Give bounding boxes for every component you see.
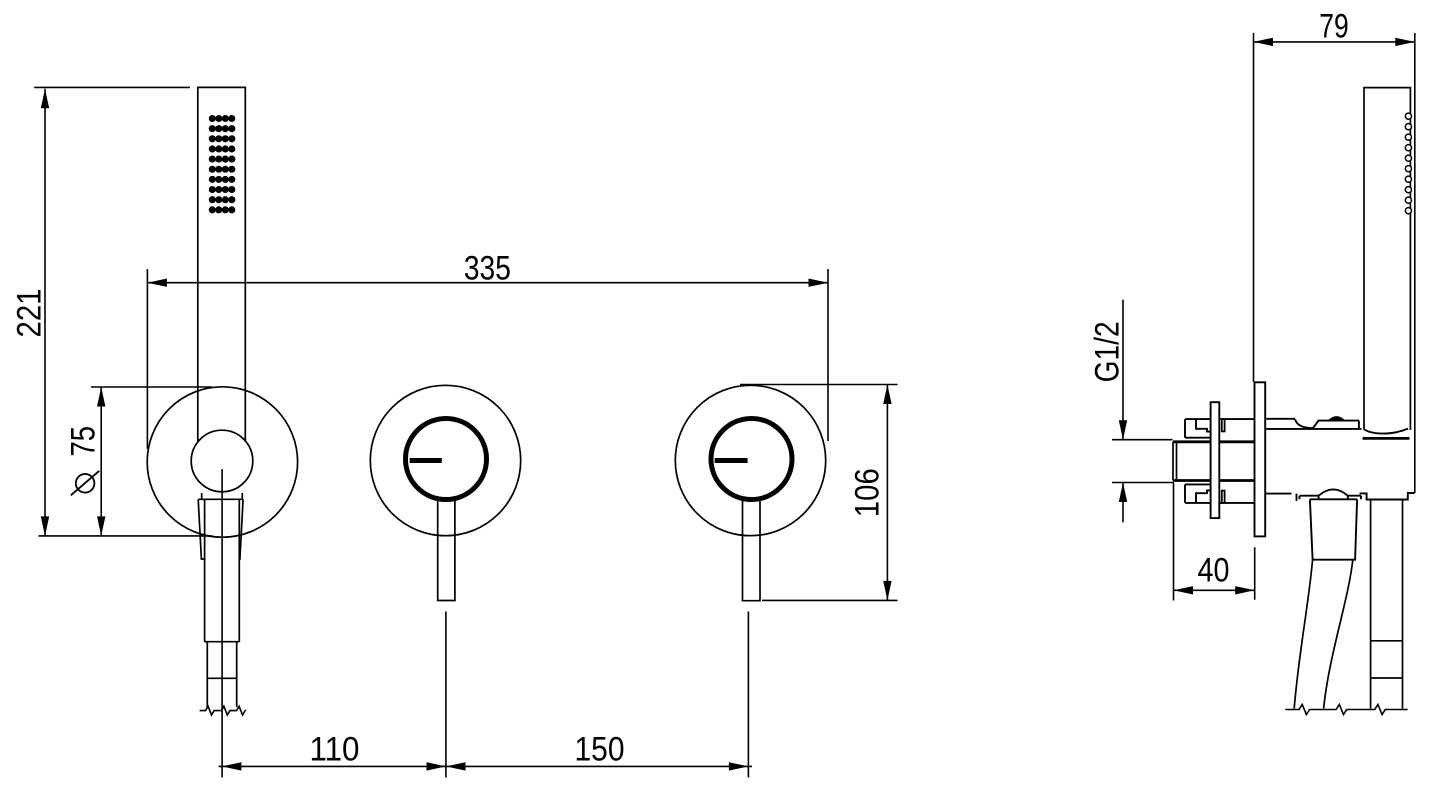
dimension 335 arrows — [147, 279, 828, 287]
side nozzles — [1405, 113, 1411, 214]
curved hose — [1294, 560, 1312, 709]
dimension 75 extension line top — [91, 386, 212, 388]
dimension 110/150 arrows — [222, 762, 749, 770]
holder arm bottom-right step — [1360, 493, 1415, 500]
bracket small bar upper right — [1222, 419, 1225, 431]
break squiggle (side) — [1285, 705, 1407, 715]
hose fitting — [205, 499, 240, 641]
middle valve lever stem — [438, 498, 455, 601]
dimension 335 line — [147, 282, 828, 284]
lower bracket — [1185, 484, 1254, 503]
dimension 106 line — [886, 385, 888, 601]
dimension 40 extension lines — [1174, 483, 1255, 601]
middle valve handle cap — [406, 419, 487, 500]
holder shoulders and dome — [1300, 496, 1362, 500]
grip underline — [1363, 437, 1410, 440]
right valve lever stem — [743, 498, 761, 601]
svg-text:79: 79 — [1319, 8, 1349, 46]
svg-text:75: 75 — [64, 426, 102, 457]
svg-text:40: 40 — [1198, 552, 1230, 590]
right valve indicator dash — [715, 458, 748, 463]
upper bracket — [1185, 419, 1254, 438]
G1/2 dimension line upper — [1122, 300, 1124, 440]
centerline left assembly — [221, 469, 223, 778]
bracket vertical bar — [1211, 402, 1220, 518]
diameter symbol — [76, 474, 95, 493]
svg-text:150: 150 — [575, 730, 625, 768]
dimension 40 line — [1174, 589, 1255, 591]
holder bracket taper — [198, 499, 243, 559]
svg-text:335: 335 — [464, 249, 511, 287]
outlet nut (side) — [1371, 641, 1403, 678]
dimension 106 arrows — [883, 385, 891, 601]
G1/2 arrows — [1119, 420, 1127, 502]
wall plate — [1255, 382, 1266, 536]
cone (side view) — [1310, 499, 1357, 559]
extension lines below stems — [446, 612, 749, 778]
hose nut — [207, 642, 236, 679]
holder arm top profile — [1266, 418, 1295, 420]
svg-text:110: 110 — [310, 730, 360, 768]
dimension 110/150 line — [219, 765, 752, 767]
dimension 79 line — [1254, 41, 1415, 43]
svg-text:106: 106 — [849, 468, 887, 517]
dimension 221 line — [44, 89, 46, 536]
break squiggle (front hose) — [200, 706, 246, 715]
bracket small bar lower right — [1222, 491, 1225, 503]
dimension 79 extension left — [1253, 33, 1255, 382]
dimension 75 line — [100, 387, 102, 536]
G1/2 extension lines — [1112, 440, 1174, 483]
dimension 335 extension lines — [147, 269, 828, 449]
threaded stub — [1173, 442, 1177, 481]
grip wave — [1364, 429, 1409, 434]
hose end — [207, 678, 236, 707]
dimension 221 extension line top — [34, 86, 190, 88]
dimension 221/75 extension line bottom — [39, 535, 213, 537]
svg-text:221: 221 — [10, 289, 48, 338]
holder escutcheon circle (left) — [147, 387, 297, 537]
holder knob circle — [191, 430, 253, 492]
right valve handle cap — [711, 419, 792, 500]
right valve escutcheon — [675, 385, 825, 535]
G1/2 dimension line lower — [1122, 483, 1124, 523]
holder arm bottom-left edge — [1265, 494, 1296, 501]
dimension 106 extension lines — [740, 385, 898, 601]
middle valve indicator dash — [410, 458, 442, 463]
hand shower side view body — [1364, 88, 1410, 430]
holder connector below knob — [202, 493, 243, 499]
hand shower spray nozzles (dots) — [209, 115, 236, 213]
outlet hose end (side) — [1371, 678, 1403, 709]
svg-text:G1/2: G1/2 — [1088, 321, 1126, 382]
middle valve escutcheon — [370, 385, 520, 535]
outlet fitting (side) — [1371, 500, 1403, 641]
dimension 79 arrows — [1254, 38, 1415, 46]
dimension 221 arrows — [41, 89, 49, 536]
dimension 40 arrows — [1174, 586, 1255, 594]
holder arm base line — [1265, 428, 1361, 430]
hand shower head outline — [198, 87, 246, 441]
dimension 75 arrows — [97, 387, 105, 536]
holder pin lens — [1329, 417, 1345, 421]
dimension 79 extension right / assembly right edge — [1414, 33, 1416, 493]
